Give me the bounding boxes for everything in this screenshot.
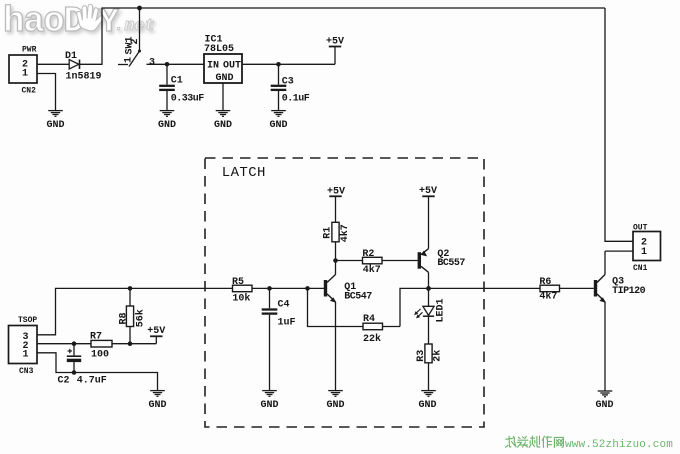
resistor R8 56k — [118, 288, 146, 343]
svg-text:1: 1 — [641, 247, 647, 258]
svg-text:2k: 2k — [432, 350, 444, 362]
svg-text:3: 3 — [149, 58, 155, 69]
wire R1 junction to R2 — [336, 260, 363, 262]
svg-text:1: 1 — [22, 69, 28, 80]
wire CN2 pin1 to GND — [37, 74, 56, 111]
svg-text:0.33uF: 0.33uF — [171, 93, 205, 104]
capacitor C1 0.33uF — [159, 64, 204, 110]
svg-text:+5V: +5V — [327, 187, 345, 198]
diode D1 1n5819 — [65, 51, 102, 83]
node R4 branch junction — [305, 286, 310, 291]
svg-text:4k7: 4k7 — [539, 291, 557, 303]
resistor R3 2k — [416, 344, 444, 390]
capacitor C3 0.1uF — [271, 64, 310, 110]
ground CN2 — [48, 111, 63, 117]
svg-text:22k: 22k — [363, 333, 381, 345]
svg-text:GND: GND — [595, 400, 613, 411]
wire pin3 to IC1 — [147, 63, 205, 65]
resistor R5 10k — [232, 277, 324, 305]
node rail/SW1 junction — [137, 6, 142, 11]
svg-text:0.1uF: 0.1uF — [282, 93, 310, 104]
svg-text:LATCH: LATCH — [222, 165, 266, 181]
wire IC1 GND pin — [222, 83, 224, 110]
svg-text:OUT: OUT — [223, 60, 241, 71]
switch SW1 — [118, 8, 141, 67]
node C1 junction — [165, 62, 170, 67]
svg-text:TIP120: TIP120 — [612, 286, 646, 297]
power +5V top — [326, 36, 344, 64]
ground C3 — [271, 111, 286, 117]
svg-text:CN3: CN3 — [19, 367, 34, 376]
wire CN2 pin2 to D1 — [37, 63, 69, 65]
svg-text:.net: .net — [114, 17, 155, 36]
svg-text:R7: R7 — [90, 332, 102, 343]
capacitor C2 4.7uF — [58, 344, 107, 387]
svg-text:4.7uF: 4.7uF — [77, 375, 107, 386]
svg-text:GND: GND — [148, 400, 166, 411]
transistor Q3 TIP120 — [594, 251, 646, 391]
svg-text:TSOP: TSOP — [18, 316, 37, 325]
svg-text:1: 1 — [23, 350, 29, 361]
svg-text:+5V: +5V — [326, 36, 344, 47]
node C4 junction — [267, 286, 272, 291]
svg-text:BC547: BC547 — [344, 292, 372, 303]
svg-text:IN: IN — [207, 60, 219, 71]
wire junction to LED1 — [428, 288, 430, 306]
power +5V Q2 — [419, 186, 437, 249]
connector CN2 PWR — [9, 46, 37, 96]
svg-text:GND: GND — [46, 120, 64, 131]
svg-text:1uF: 1uF — [278, 318, 296, 329]
svg-text:C1: C1 — [171, 75, 183, 86]
wire rail down to CN1 pin2 — [605, 8, 633, 241]
wire IC1 OUT to +5V — [242, 63, 335, 65]
LED LED1 — [414, 298, 446, 344]
node C2 top junction — [72, 341, 77, 346]
node R8 top junction — [128, 286, 133, 291]
ground C1 — [160, 111, 175, 117]
node R1/R2/Q1 junction — [333, 258, 338, 263]
node Q2/LED/R6 junction — [426, 286, 431, 291]
svg-text:78L05: 78L05 — [204, 44, 234, 55]
svg-text:GND: GND — [260, 400, 278, 411]
resistor R6 4k7 — [539, 277, 593, 303]
svg-text:R6: R6 — [539, 277, 551, 288]
latch dashed box — [205, 158, 484, 427]
wire R4 up to main row — [400, 288, 429, 326]
watermark 52zhizuo — [506, 436, 564, 447]
svg-text:C3: C3 — [282, 76, 294, 87]
svg-text:OUT: OUT — [633, 223, 648, 232]
svg-text:GND: GND — [216, 73, 234, 84]
resistor R2 4k7 — [362, 249, 417, 276]
svg-text:4k7: 4k7 — [339, 224, 351, 242]
svg-text:C2: C2 — [58, 375, 70, 386]
power +5V TSOP — [147, 326, 165, 344]
svg-text:2: 2 — [130, 38, 141, 44]
svg-text:LED1: LED1 — [435, 298, 446, 322]
wire CN1 pin1 to Q3 collector — [605, 250, 633, 252]
wire CN3 pin2 to R7 — [37, 343, 91, 345]
connector CN1 OUT — [633, 223, 661, 273]
svg-text:56k: 56k — [135, 309, 147, 327]
svg-text:4k7: 4k7 — [363, 264, 381, 276]
svg-text:haoD: haoD — [3, 1, 84, 42]
resistor R7 100 — [90, 332, 156, 361]
node C3 junction — [276, 62, 281, 67]
svg-text:R5: R5 — [232, 277, 244, 288]
svg-text:+5V: +5V — [147, 326, 165, 337]
resistor R4 22k — [363, 314, 400, 345]
capacitor C4 1uF — [262, 288, 296, 390]
svg-text:+5V: +5V — [419, 186, 437, 197]
svg-text:GND: GND — [418, 400, 436, 411]
svg-text:CN2: CN2 — [22, 87, 37, 96]
wire top rail — [140, 7, 606, 9]
svg-text:R1: R1 — [323, 227, 334, 239]
svg-text:BC557: BC557 — [437, 258, 465, 269]
wire CN3 pin1 to bottom row — [37, 353, 158, 391]
svg-text:R4: R4 — [363, 314, 375, 325]
svg-text:1: 1 — [124, 57, 135, 63]
svg-text:www.52zhizuo.com: www.52zhizuo.com — [565, 439, 673, 451]
wire junction to R6 — [429, 287, 541, 289]
svg-text:100: 100 — [91, 349, 109, 360]
wire R4 branch — [308, 288, 364, 326]
svg-text:C4: C4 — [278, 299, 290, 310]
ground C4 — [262, 391, 277, 397]
svg-text:1n5819: 1n5819 — [66, 71, 102, 82]
svg-text:10k: 10k — [232, 293, 250, 305]
ground Q1 — [328, 391, 343, 397]
power +5V R1 — [327, 187, 345, 223]
node R8 bottom junction — [128, 341, 133, 346]
node C2 bottom junction — [72, 370, 77, 375]
transistor Q1 BC547 — [324, 261, 372, 391]
resistor R1 4k7 — [323, 222, 351, 260]
svg-text:GND: GND — [158, 120, 176, 131]
svg-text:R2: R2 — [362, 249, 374, 260]
logo haoDIY.net — [3, 1, 155, 42]
ground R3 — [421, 391, 436, 397]
transistor Q2 BC557 — [418, 249, 466, 289]
svg-text:GND: GND — [214, 120, 232, 131]
svg-text:GND: GND — [269, 120, 287, 131]
IC U1 78L05 — [204, 35, 242, 85]
ground bottom row — [150, 391, 165, 397]
svg-text:R8: R8 — [118, 312, 129, 324]
ground Q3 — [598, 391, 613, 397]
svg-text:PWR: PWR — [22, 46, 37, 55]
svg-text:GND: GND — [326, 400, 344, 411]
svg-text:D1: D1 — [65, 51, 77, 62]
wire CN3 pin3 up to main row — [37, 288, 233, 334]
connector CN3 TSOP — [9, 316, 38, 376]
wire D1 to top rail — [80, 8, 140, 64]
svg-text:CN1: CN1 — [633, 264, 648, 273]
svg-text:R3: R3 — [416, 350, 427, 362]
ground IC1 — [216, 111, 231, 117]
